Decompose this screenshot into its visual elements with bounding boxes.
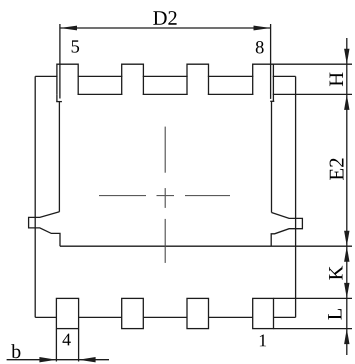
center lines — [164, 127, 166, 263]
label L (rotated) — [328, 309, 341, 320]
pin 5 (top row) — [57, 64, 78, 95]
b dimension line — [7, 359, 109, 361]
label b — [11, 344, 20, 358]
D2 left extension line — [59, 24, 61, 99]
H top arrow (points down) — [344, 49, 349, 64]
D2 right extension line — [270, 24, 272, 99]
H bottom / E2 top arrow (points up) — [344, 94, 349, 110]
pin 4 (bottom row) — [56, 298, 78, 328]
label pin number 5 — [72, 40, 79, 52]
pin8 top edge extension (H upper extension line) — [253, 63, 352, 65]
horizontal centerline middle dash (cross) — [157, 195, 175, 197]
label pin number 8 — [256, 41, 264, 53]
b extension line right (pin4 right edge extended) — [78, 329, 80, 362]
pin 3 (bottom row) — [122, 298, 144, 328]
exposed pad top edge (also H lower extension line) — [60, 93, 353, 95]
exposed pad right edge upper segment — [271, 101, 273, 212]
label pin number 1 — [260, 335, 266, 347]
E2 bottom arrow (points down) — [344, 231, 349, 247]
label pin number 4 — [62, 334, 70, 346]
exposed pad bottom edge (also E2/K extension line) — [60, 245, 352, 247]
label K (rotated) — [329, 266, 342, 280]
label H (rotated) — [330, 72, 343, 86]
D2 left small cap tick — [56, 101, 62, 103]
b right arrow (points left) — [79, 357, 96, 362]
pin 1 (bottom row) — [253, 298, 274, 328]
vertical centerline upper segment — [164, 127, 166, 173]
D2 right small cap tick — [270, 100, 274, 102]
horizontal centerline right dash — [185, 195, 230, 197]
b extension line left (pin4 left edge extended) — [55, 329, 57, 362]
b left arrow (points right) — [39, 357, 56, 362]
L lower extension line (pin1 bottom edge extended) — [273, 328, 352, 330]
pin 2 (bottom row) — [187, 298, 209, 328]
label D2 — [153, 11, 176, 25]
package body right edge — [295, 76, 297, 317]
pin 5 left edge extended down to cap — [56, 95, 58, 102]
pin 7 (top row) — [187, 64, 209, 95]
pin 8 right edge extended down to cap — [272, 95, 274, 101]
package body left edge — [34, 76, 36, 317]
L bottom arrow (points up) — [344, 329, 349, 345]
vertical centerline lower segment — [164, 219, 166, 263]
K lower extension line (pin1 top edge extended) — [273, 297, 352, 299]
K top arrow (points up) — [344, 246, 349, 262]
horizontal centerline left dash — [99, 195, 146, 197]
K bottom / L top arrow (points down) — [344, 283, 349, 299]
D2 dimension line — [60, 27, 271, 29]
D2 right arrow — [254, 26, 271, 31]
label E2 (rotated) — [330, 158, 344, 180]
exposed pad right tie-bar tab — [271, 213, 302, 247]
package body top edge — [35, 75, 295, 77]
right vertical dimension line (H/E2/K/L) — [346, 38, 348, 355]
D2 left arrow — [60, 26, 77, 31]
pin 8 (top row) — [253, 64, 274, 95]
exposed pad left edge upper segment — [58, 102, 60, 212]
vertical centerline short dash (cross) — [164, 188, 166, 208]
package body bottom edge — [35, 316, 295, 318]
pin 6 (top row) — [122, 64, 144, 95]
exposed pad left tie-bar tab — [29, 212, 60, 246]
